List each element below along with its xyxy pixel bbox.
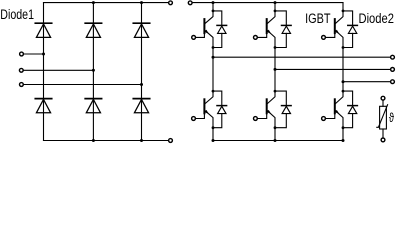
diode D9 (Q3 antiparallel) bbox=[282, 25, 292, 33]
junction Q2 emitter DC- rail bbox=[212, 139, 215, 142]
wire Q2-D8 cathode branch bbox=[213, 91, 222, 105]
diode D12 (Q6 antiparallel) bbox=[348, 106, 358, 114]
junction Q5 emitter-D11 bbox=[342, 46, 345, 49]
transistor Q2 collector wire bbox=[205, 57, 213, 103]
svg-text:Diode2: Diode2 bbox=[359, 11, 394, 26]
junction L1 bbox=[42, 53, 45, 56]
terminal phase W bbox=[391, 80, 395, 84]
wire Q2 gate lead bbox=[195, 113, 204, 118]
transistor Q6 collector wire bbox=[336, 82, 343, 104]
junction Q4 diode tap bbox=[274, 90, 277, 93]
wire inverter DC- rail bbox=[213, 140, 343, 142]
diode D6 (rectifier lower column 3) bbox=[133, 99, 149, 113]
junction Q3 diode tap bbox=[274, 10, 277, 13]
junction Q6 emitter DC- rail bbox=[342, 139, 345, 142]
diode D10 (Q4 antiparallel) bbox=[282, 106, 292, 114]
terminal AC input L1 bbox=[20, 52, 24, 56]
junction phase V leg bbox=[274, 68, 277, 71]
junction Q3 collector rail bbox=[274, 1, 277, 4]
transistor Q3 gate bar bbox=[266, 19, 268, 33]
wire AC input L3 bbox=[23, 84, 141, 86]
arrow Q2 emitter bbox=[204, 110, 208, 114]
transistor Q6 emitter wire bbox=[336, 111, 343, 141]
diode D1 (rectifier upper column 1) bbox=[35, 23, 51, 37]
wire Q5 gate lead bbox=[325, 33, 334, 37]
diode D3 (rectifier upper column 3) bbox=[133, 23, 149, 37]
diode D2 (rectifier upper column 2) bbox=[85, 23, 101, 37]
terminal thermistor top bbox=[381, 96, 385, 100]
junction Q1 diode tap bbox=[212, 10, 215, 13]
transistor Q2 emitter wire bbox=[205, 111, 213, 141]
arrow Q6 emitter bbox=[335, 110, 339, 114]
wire Q4-D10 cathode branch bbox=[275, 91, 286, 105]
wire thermistor top lead bbox=[382, 100, 384, 106]
transistor Q5 emitter wire bbox=[336, 31, 343, 82]
thermistor strike line bbox=[377, 105, 388, 128]
svg-text:Diode1: Diode1 bbox=[0, 7, 34, 23]
wire Q3 gate lead bbox=[257, 33, 266, 37]
terminal AC input L3 bbox=[20, 83, 24, 87]
junction Q1 emitter-D7 bbox=[212, 46, 215, 49]
terminal Q2 gate bbox=[192, 117, 196, 121]
transistor Q4 emitter wire bbox=[268, 111, 276, 141]
wire AC input L1 bbox=[23, 53, 43, 55]
wire D7 anode bbox=[213, 33, 222, 47]
wire Q3-D9 cathode branch bbox=[275, 11, 286, 25]
wire Q6 gate lead bbox=[325, 113, 334, 118]
wire inverter DC+ rail bbox=[192, 2, 343, 4]
junction column 3 top rail bbox=[140, 1, 143, 4]
wire D11 anode bbox=[343, 33, 353, 47]
terminal rectifier DC+ output bbox=[169, 1, 173, 5]
svg-text:ϑ: ϑ bbox=[389, 112, 395, 126]
terminal Q4 gate bbox=[254, 117, 258, 121]
junction column 3 bottom rail bbox=[140, 139, 143, 142]
wire D10 anode bbox=[275, 114, 286, 128]
terminal AC input L2 bbox=[19, 68, 23, 72]
junction Q4 emitter DC- rail bbox=[274, 139, 277, 142]
transistor Q5 gate bar bbox=[334, 19, 336, 33]
terminal thermistor bottom bbox=[381, 138, 385, 142]
terminal Q3 gate bbox=[254, 36, 258, 40]
junction Q5 diode tap bbox=[342, 10, 345, 13]
wire rectifier DC+ top rail bbox=[44, 2, 169, 4]
terminal phase U bbox=[391, 55, 395, 59]
wire phase V output bbox=[275, 68, 391, 70]
arrow Q1 emitter bbox=[204, 30, 208, 34]
diode D4 (rectifier lower column 1) bbox=[35, 99, 51, 113]
wire rectifier DC- bottom rail bbox=[44, 140, 169, 142]
wire rectifier column 3 bbox=[141, 3, 143, 141]
transistor Q3 emitter wire bbox=[268, 31, 276, 70]
diode D11 (Q5 antiparallel) bbox=[348, 25, 358, 33]
transistor Q4 collector wire bbox=[268, 69, 276, 103]
junction Q1 collector rail bbox=[212, 1, 215, 4]
transistor Q6 gate bar bbox=[334, 99, 336, 113]
diode D7 (Q1 antiparallel) bbox=[217, 25, 227, 33]
terminal phase V bbox=[391, 68, 395, 72]
diode D5 (rectifier lower column 2) bbox=[85, 99, 101, 113]
thermistor R1 body bbox=[380, 106, 387, 129]
terminal rectifier DC- output bbox=[169, 139, 173, 143]
wire Q1 gate lead bbox=[196, 33, 205, 37]
wire D8 anode bbox=[213, 114, 222, 128]
wire rectifier column 2 bbox=[92, 3, 94, 141]
junction L2 bbox=[92, 69, 95, 72]
terminal Q1 gate bbox=[192, 36, 196, 40]
wire AC input L2 bbox=[23, 69, 93, 71]
arrow Q4 emitter bbox=[267, 110, 271, 114]
junction Q3 emitter-D9 bbox=[274, 46, 277, 49]
transistor Q1 emitter wire bbox=[205, 31, 213, 58]
wire Q5-D11 cathode branch bbox=[343, 11, 353, 25]
wire Q6-D12 cathode branch bbox=[343, 91, 353, 105]
arrow Q3 emitter bbox=[267, 30, 271, 34]
transistor Q1 collector wire bbox=[205, 3, 213, 24]
junction phase W leg bbox=[342, 80, 345, 83]
junction Q2 diode tap bbox=[212, 90, 215, 93]
transistor Q2 gate bar bbox=[203, 99, 205, 113]
wire D12 anode bbox=[343, 114, 353, 128]
transistor Q1 gate bar bbox=[203, 19, 205, 33]
wire phase W output bbox=[343, 81, 391, 83]
terminal Q5 gate bbox=[322, 36, 326, 40]
junction L3 bbox=[140, 83, 143, 86]
svg-text:IGBT: IGBT bbox=[305, 11, 331, 27]
terminal Q6 gate bbox=[322, 117, 326, 121]
arrow Q5 emitter bbox=[335, 30, 339, 34]
wire D9 anode bbox=[275, 33, 286, 47]
wire phase U output bbox=[213, 56, 391, 58]
junction Q6 diode tap bbox=[342, 90, 345, 93]
junction phase U leg bbox=[212, 56, 215, 59]
junction column 2 bottom rail bbox=[92, 139, 95, 142]
diode D8 (Q2 antiparallel) bbox=[217, 106, 227, 114]
junction column 2 top rail bbox=[92, 1, 95, 4]
junction Q2 emitter-D8 bbox=[212, 126, 215, 129]
transistor Q5 collector wire bbox=[336, 3, 343, 24]
transistor Q3 collector wire bbox=[268, 3, 276, 24]
wire rectifier column 1 bbox=[43, 3, 45, 141]
terminal inverter DC+ bbox=[188, 1, 192, 5]
wire thermistor bottom lead bbox=[382, 129, 384, 138]
wire Q1-D7 cathode branch bbox=[213, 11, 222, 25]
transistor Q4 gate bar bbox=[266, 99, 268, 113]
junction Q6 emitter-D12 bbox=[342, 126, 345, 129]
wire Q4 gate lead bbox=[257, 113, 266, 118]
junction Q4 emitter-D10 bbox=[274, 126, 277, 129]
